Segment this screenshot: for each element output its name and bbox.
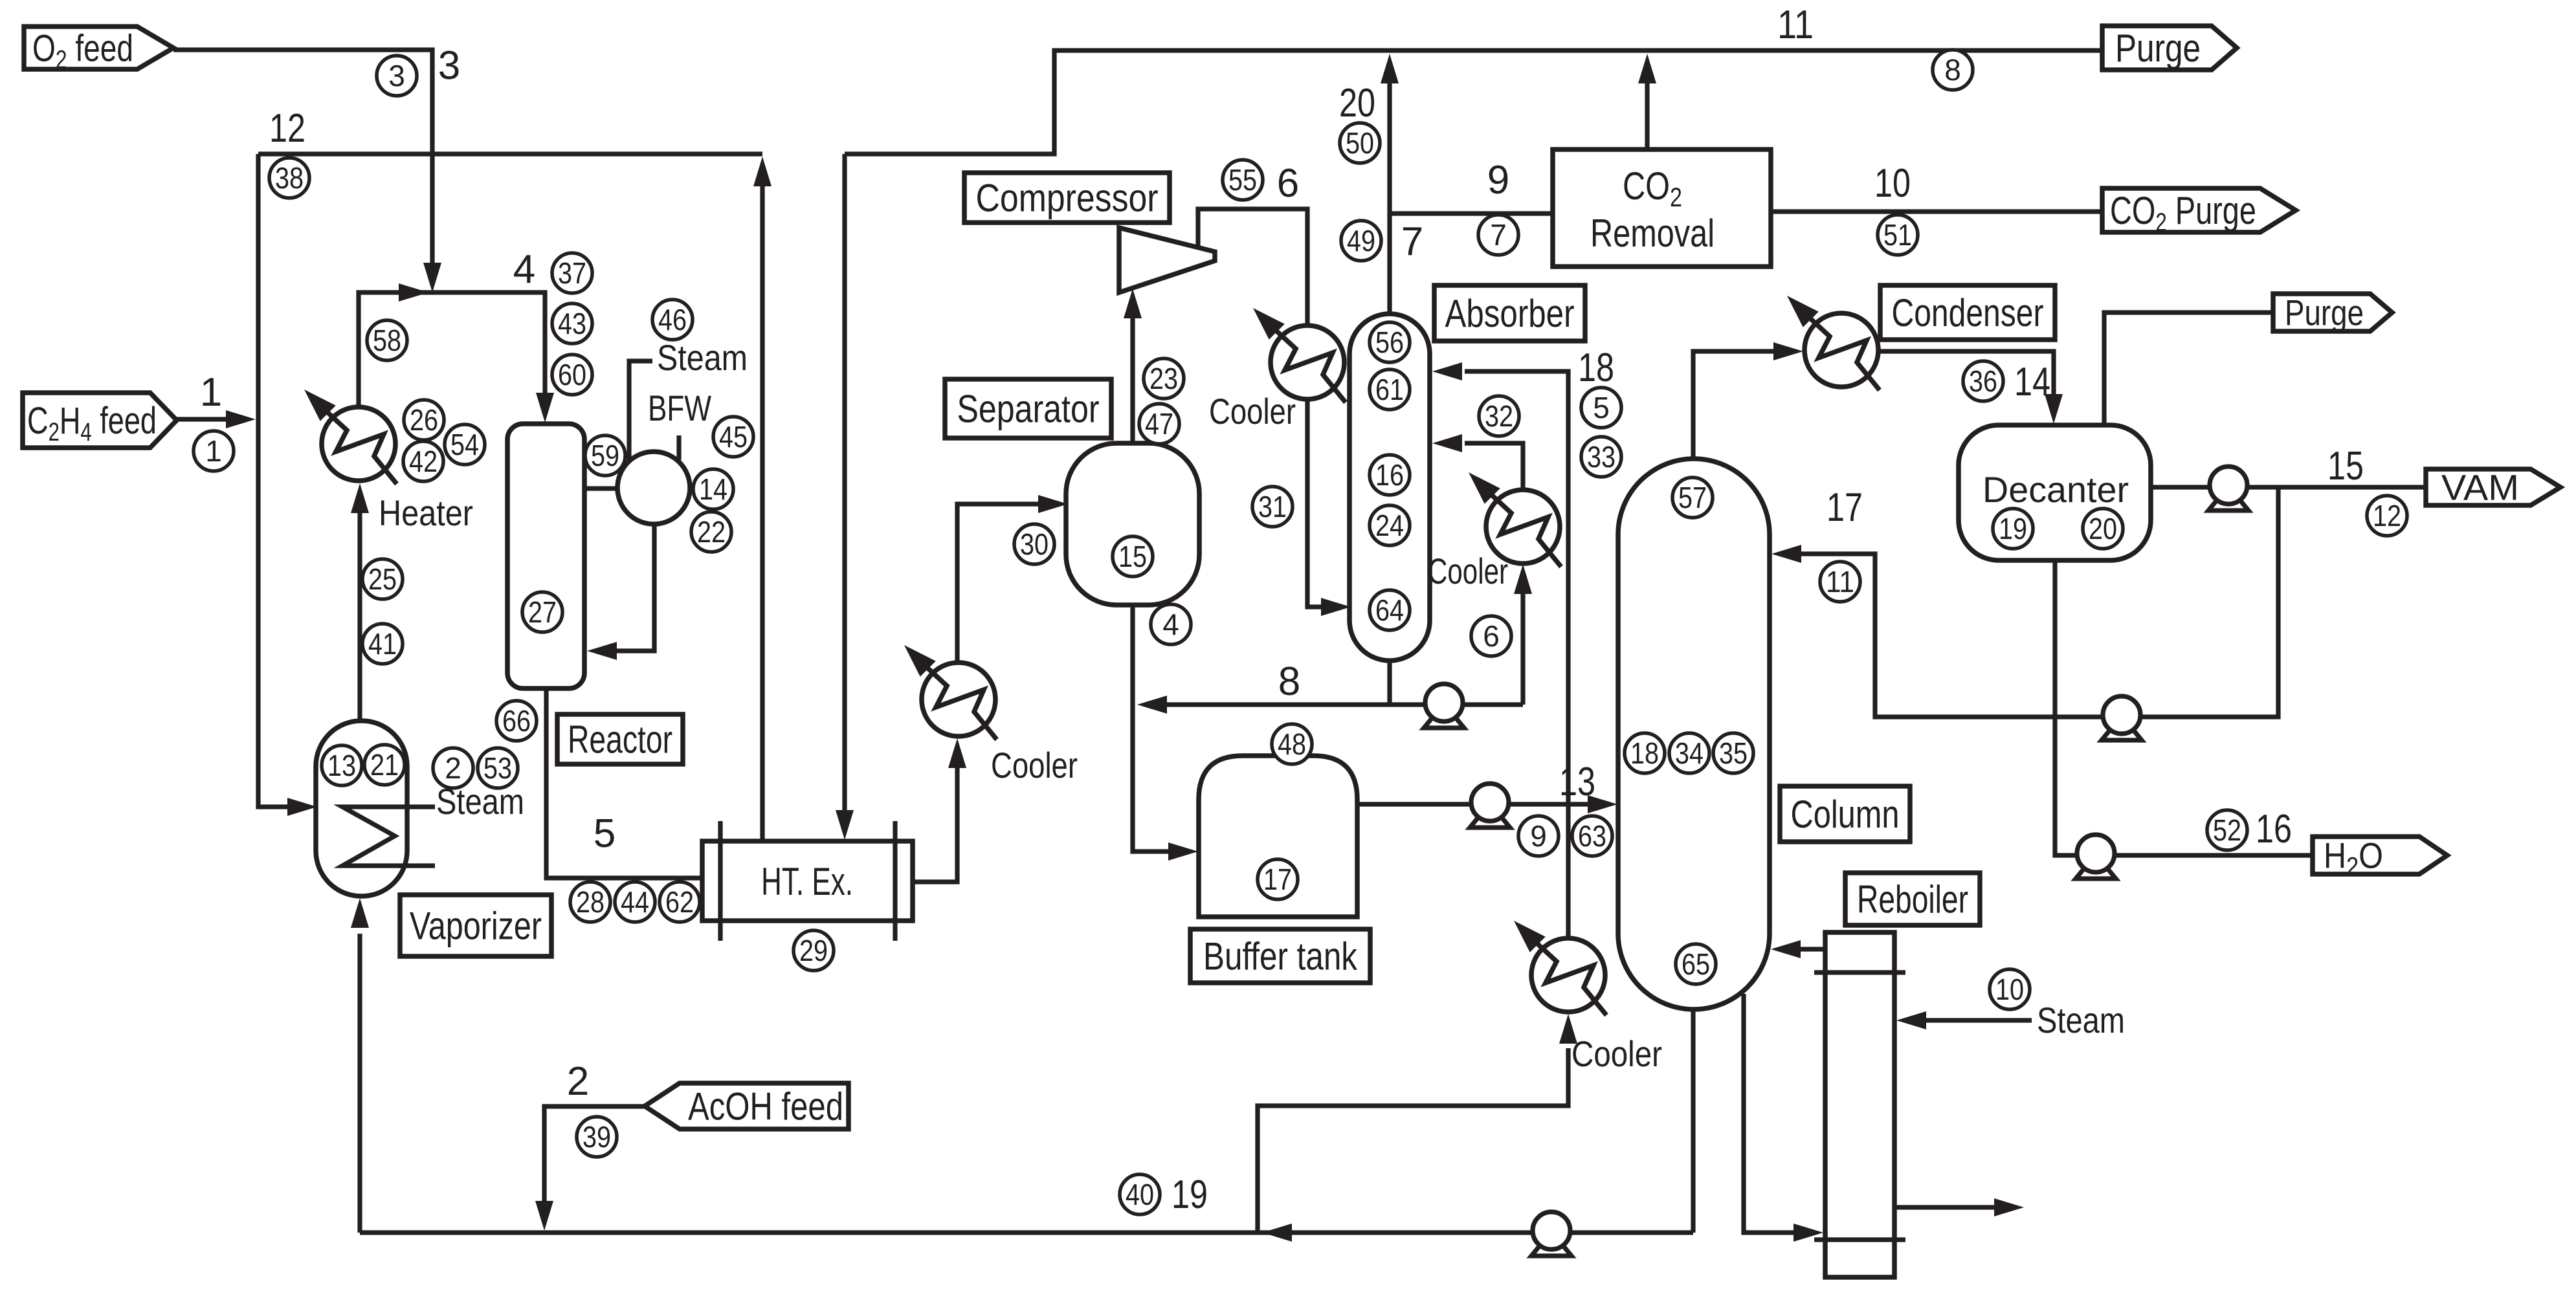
svg-text:64: 64 <box>1375 593 1404 627</box>
arrowhead into vaporizer bottom <box>351 898 369 928</box>
svg-text:18: 18 <box>1630 736 1659 770</box>
arrowhead stream 3 into mix junction <box>423 263 441 292</box>
svg-text:7: 7 <box>1490 218 1507 252</box>
stream tag 56 <box>1370 322 1410 362</box>
absorber column vessel <box>1349 314 1430 661</box>
stream tag 63 <box>1572 816 1612 856</box>
svg-text:34: 34 <box>1675 736 1704 770</box>
arrowhead into bottom cooler <box>1559 1014 1577 1044</box>
label Reboiler <box>1845 873 1980 925</box>
cooler E3 (compressor discharge) <box>1253 308 1346 402</box>
arrowhead stream 12 into vaporizer <box>287 798 317 816</box>
arrowhead into condenser <box>1773 342 1803 360</box>
arrowhead into compressor <box>1124 289 1142 318</box>
svg-text:46: 46 <box>658 303 687 336</box>
svg-text:5: 5 <box>594 811 616 856</box>
wire stream 19 (bottoms recycle header) <box>360 1230 1693 1235</box>
pump P2 (column feed) <box>1470 784 1510 828</box>
stream tag 10 <box>1990 969 2030 1009</box>
stream tag 2 <box>433 748 473 788</box>
wire top gas header (streams 11/20) <box>845 50 2102 154</box>
svg-text:Cooler: Cooler <box>1571 1033 1662 1074</box>
svg-text:23: 23 <box>1149 362 1178 395</box>
compressor K1 <box>1119 228 1215 292</box>
svg-text:Separator: Separator <box>957 388 1100 431</box>
svg-text:Absorber: Absorber <box>1445 292 1575 335</box>
stream tag 38 <box>269 158 309 198</box>
stream tag 29 <box>794 930 834 971</box>
wire vaporizer top to heater <box>357 495 362 721</box>
svg-text:6: 6 <box>1483 619 1500 653</box>
svg-text:9: 9 <box>1487 158 1509 203</box>
arrowhead stream 17 into column <box>1771 545 1801 563</box>
svg-text:53: 53 <box>483 751 512 785</box>
wire stream 14 (condenser to decanter) <box>1878 351 2054 412</box>
wire reactor to steam drum <box>584 486 617 490</box>
wire separator overhead to compressor <box>1130 300 1135 443</box>
arrowhead riser into recycle header <box>753 157 772 186</box>
stream tag 12 <box>2367 496 2407 536</box>
stream tag 4 <box>1151 604 1191 644</box>
wire stream 17 (reflux return) <box>1793 487 2278 717</box>
stream tag 8 <box>1933 50 1973 90</box>
flag AcOH feed <box>645 1083 849 1129</box>
label Separator <box>945 379 1111 438</box>
arrowhead on stream 4 <box>399 283 428 302</box>
flag O2 feed <box>24 27 173 74</box>
svg-text:12: 12 <box>2373 499 2401 533</box>
svg-text:Heater: Heater <box>379 492 473 533</box>
wire stream 12 (recycle to vaporizer) <box>258 154 304 807</box>
wire column overhead to condenser <box>1693 351 1792 459</box>
arrowhead into top header <box>1381 54 1399 83</box>
pump P3 (bottoms recycle) <box>1531 1212 1571 1256</box>
svg-text:9: 9 <box>1530 819 1547 853</box>
svg-text:63: 63 <box>1578 819 1606 853</box>
stream tag 48 <box>1272 724 1312 764</box>
svg-text:39: 39 <box>583 1120 611 1154</box>
stream tag 42 <box>403 441 443 481</box>
wire stream 13 (buffer tank to column) <box>1357 802 1606 806</box>
wire stream 10 (CO2 purge) <box>1771 209 2102 214</box>
svg-text:40: 40 <box>1126 1178 1154 1211</box>
wire stream 1 (C2H4 feed) <box>177 417 244 421</box>
wire reboiler vapour return <box>1793 947 1825 951</box>
wire stream 16 (decanter aqueous to H2O) <box>2055 560 2313 855</box>
label Absorber <box>1434 285 1585 341</box>
wire stream 4 (heater outlet to reactor) <box>359 292 545 412</box>
wire HT.Ex hot outlet to cooler <box>913 751 957 882</box>
svg-text:2: 2 <box>567 1059 589 1104</box>
svg-text:CO2 Purge: CO2 Purge <box>2110 189 2256 237</box>
stream tag 13 <box>322 745 362 785</box>
svg-text:49: 49 <box>1347 224 1375 258</box>
arrowhead stream 14 into decanter <box>2045 394 2063 424</box>
svg-text:14: 14 <box>699 472 727 506</box>
arrowhead into buffer tank <box>1168 842 1198 861</box>
arrowhead steam into reboiler <box>1896 1011 1926 1029</box>
svg-text:45: 45 <box>719 420 748 454</box>
stream tag 60 <box>552 355 592 395</box>
svg-text:21: 21 <box>370 748 399 782</box>
stream tag 30 <box>1014 524 1054 564</box>
wire stream 5 (reactor bottom to HT.Ex) <box>546 688 702 878</box>
flag H2O product <box>2313 835 2447 881</box>
svg-text:11: 11 <box>1826 565 1854 599</box>
svg-text:19: 19 <box>1171 1172 1208 1217</box>
reactor R1 vessel <box>507 424 584 688</box>
flag CO2 Purge <box>2102 188 2296 237</box>
cooler E5 (bottoms recycle) <box>1514 921 1606 1015</box>
svg-text:48: 48 <box>1278 727 1306 761</box>
wire column bottoms to reboiler <box>1744 994 1802 1233</box>
svg-text:20: 20 <box>2089 512 2117 545</box>
arrowhead stream 18 into absorber <box>1432 362 1462 380</box>
stream tag 19 <box>1993 509 2033 549</box>
stream tag 44 <box>615 882 655 922</box>
svg-text:31: 31 <box>1258 490 1287 523</box>
svg-text:8: 8 <box>1944 53 1961 87</box>
svg-text:14: 14 <box>2014 360 2050 404</box>
svg-text:4: 4 <box>1162 608 1179 641</box>
svg-text:16: 16 <box>1375 458 1404 492</box>
svg-text:BFW: BFW <box>648 388 711 428</box>
stream tag 9 <box>1518 816 1559 856</box>
stream tag 62 <box>660 882 700 922</box>
svg-text:Vaporizer: Vaporizer <box>410 905 542 948</box>
pump P5 (reflux) <box>2102 696 2142 740</box>
wire stream 15 (decanter to VAM) <box>2151 485 2426 489</box>
reboiler tube sheets <box>1814 970 1905 974</box>
stream tag 34 <box>1669 733 1709 773</box>
arrowhead stream 1 into recycle line <box>226 410 256 428</box>
stream tag 15 <box>1113 536 1153 577</box>
svg-text:5: 5 <box>1593 391 1610 424</box>
svg-text:52: 52 <box>2213 813 2241 847</box>
arrowhead stream 32 into absorber <box>1432 434 1462 452</box>
svg-text:15: 15 <box>1118 540 1147 573</box>
svg-text:22: 22 <box>697 515 726 549</box>
svg-text:56: 56 <box>1375 325 1404 359</box>
svg-text:3: 3 <box>438 43 460 88</box>
stream tag 66 <box>496 701 537 741</box>
heater E1 <box>304 390 397 484</box>
stream tag 25 <box>362 559 403 599</box>
arrowhead AcOH into recycle header <box>535 1201 553 1231</box>
svg-text:65: 65 <box>1682 947 1710 981</box>
label CO2 Removal <box>1553 149 1771 267</box>
svg-text:VAM: VAM <box>2441 467 2519 508</box>
arrowhead stream 13 into column <box>1588 795 1617 813</box>
svg-text:60: 60 <box>558 358 586 391</box>
wire riser HT.Ex to recycle header <box>760 166 764 841</box>
svg-text:30: 30 <box>1020 527 1049 561</box>
svg-text:4: 4 <box>513 247 535 292</box>
wire decanter vapour purge <box>2104 313 2273 425</box>
arrowhead reboiler return into column <box>1771 940 1801 958</box>
svg-text:Cooler: Cooler <box>1209 391 1296 432</box>
stream tag 50 <box>1340 123 1380 163</box>
svg-text:Purge: Purge <box>2115 27 2201 70</box>
svg-text:3: 3 <box>388 59 405 93</box>
svg-text:11: 11 <box>1777 3 1814 47</box>
svg-text:Condenser: Condenser <box>1892 291 2044 335</box>
buffer tank vessel <box>1199 756 1357 917</box>
stream tag 59 <box>585 435 625 476</box>
svg-text:1: 1 <box>205 434 222 468</box>
HT.Ex shell <box>702 841 913 921</box>
wire stream 18 (cooled recycle into absorber) <box>1465 371 1568 939</box>
svg-text:Steam: Steam <box>2037 1000 2125 1040</box>
wire steam to reboiler <box>1918 1018 2032 1022</box>
stream tag 7 <box>1478 215 1518 255</box>
wire stream 6 (compressor discharge) <box>1198 209 1307 594</box>
label Reactor <box>557 714 683 764</box>
svg-text:36: 36 <box>1969 364 1997 398</box>
stream tag 20 <box>2083 509 2123 549</box>
svg-text:44: 44 <box>621 885 649 919</box>
wire stream 32 (pumparound return) <box>1465 443 1523 490</box>
arrowhead on bottoms recycle header <box>1262 1224 1292 1242</box>
wire CO2 removal overhead <box>1645 63 1649 149</box>
svg-text:Column: Column <box>1791 793 1900 836</box>
svg-text:Compressor: Compressor <box>976 177 1159 220</box>
flag VAM product <box>2426 467 2560 508</box>
stream tag 54 <box>445 424 485 465</box>
label Vaporizer <box>400 895 551 956</box>
wire stream 12 horizontal header <box>258 151 762 156</box>
stream tag 5 <box>1581 388 1621 428</box>
svg-text:59: 59 <box>591 439 619 472</box>
flag Purge (decanter) <box>2273 292 2392 333</box>
svg-text:19: 19 <box>1999 512 2027 545</box>
stream tag 11 <box>1820 562 1860 602</box>
svg-text:6: 6 <box>1277 161 1299 206</box>
svg-text:Reboiler: Reboiler <box>1857 878 1968 921</box>
stream tag 39 <box>577 1117 617 1157</box>
wire pumparound to cooler <box>1520 576 1525 705</box>
svg-text:20: 20 <box>1339 81 1375 126</box>
stream tag 57 <box>1672 478 1713 518</box>
svg-text:35: 35 <box>1719 736 1748 770</box>
stream tag 18 <box>1625 733 1665 773</box>
wire drop into HT.Ex <box>842 154 847 829</box>
vaporizer steam coil <box>342 807 435 866</box>
stream tag 47 <box>1139 404 1179 444</box>
svg-text:37: 37 <box>558 256 586 290</box>
flag Purge (top) <box>2102 26 2237 70</box>
arrowhead drum return into reactor <box>587 642 617 660</box>
wire BFW into drum <box>676 435 681 460</box>
wire separator bottoms to buffer tank <box>1133 605 1187 851</box>
condenser E6 <box>1787 296 1880 390</box>
stream tag 43 <box>552 303 592 344</box>
wire stream 3 (O2 feed to mix point) <box>173 50 432 280</box>
svg-text:50: 50 <box>1346 126 1374 160</box>
stream tag 49 <box>1341 221 1381 261</box>
svg-text:54: 54 <box>450 428 479 461</box>
stream tag 45 <box>713 417 753 457</box>
wire absorber bottoms <box>1387 661 1392 705</box>
reboiler shell <box>1825 932 1894 1277</box>
svg-text:18: 18 <box>1578 346 1614 390</box>
svg-text:43: 43 <box>558 307 586 340</box>
wire absorber bottoms to pumparound pump <box>1390 702 1523 707</box>
vaporizer V1 vessel <box>316 721 407 896</box>
svg-text:41: 41 <box>368 627 397 661</box>
stream tag 64 <box>1370 590 1410 630</box>
pump P1 (absorber bottoms) <box>1424 684 1464 728</box>
svg-text:2: 2 <box>445 751 461 785</box>
svg-text:16: 16 <box>2256 807 2292 851</box>
svg-text:27: 27 <box>528 595 557 629</box>
arrowhead stream 4 into reactor <box>536 393 554 423</box>
arrowhead reboiler bottoms <box>1994 1198 2024 1216</box>
wire stream 20 (absorber overhead) <box>1387 63 1392 314</box>
wire reboiler bottoms out <box>1894 1205 2012 1209</box>
stream tag 27 <box>522 592 562 632</box>
wire stream 9 (to CO2 removal) <box>1390 211 1553 215</box>
svg-text:1: 1 <box>200 370 222 415</box>
svg-text:51: 51 <box>1883 218 1912 252</box>
stream tag 55 <box>1223 160 1263 200</box>
arrowhead into heater bottom <box>351 483 369 513</box>
svg-text:Steam: Steam <box>657 337 748 378</box>
svg-text:Decanter: Decanter <box>1982 469 2129 510</box>
stream tag 16 <box>1370 455 1410 495</box>
HT.Ex tube sheets <box>718 821 722 941</box>
wire stream 8 (absorber bottoms to separator leg) <box>1152 702 1390 707</box>
stream tag 31 <box>1252 487 1293 527</box>
svg-text:C2H4 feed: C2H4 feed <box>27 400 157 446</box>
svg-text:Reactor: Reactor <box>568 718 672 762</box>
cooler E4 (absorber pumparound) <box>1469 472 1561 567</box>
svg-text:24: 24 <box>1375 509 1404 542</box>
svg-text:7: 7 <box>1401 219 1423 264</box>
arrowhead stream 8 into separator leg <box>1137 696 1167 714</box>
svg-text:Cooler: Cooler <box>1428 551 1508 591</box>
label Condenser <box>1880 285 2055 340</box>
stream tag 36 <box>1963 361 2003 401</box>
stream tag 32 <box>1479 396 1519 436</box>
svg-text:42: 42 <box>409 445 438 478</box>
stream tag 65 <box>1676 944 1716 984</box>
wire cooler to separator <box>957 504 1054 662</box>
stream tag 53 <box>478 748 518 788</box>
stream tag 17 <box>1258 859 1298 899</box>
svg-text:10: 10 <box>1874 161 1911 206</box>
svg-text:62: 62 <box>665 885 694 919</box>
svg-text:10: 10 <box>1995 972 2024 1006</box>
arrowhead into separator <box>1038 495 1068 513</box>
separator S1 vessel <box>1066 443 1199 605</box>
svg-text:Buffer tank: Buffer tank <box>1203 935 1358 978</box>
svg-text:47: 47 <box>1145 407 1173 441</box>
stream tag 41 <box>362 624 403 664</box>
stream tag 6 <box>1471 616 1511 656</box>
svg-text:15: 15 <box>2327 444 2364 489</box>
decanter vessel <box>1959 425 2151 560</box>
label Column <box>1780 786 1910 842</box>
stream tag 1 <box>194 431 234 471</box>
stream tag 35 <box>1713 733 1753 773</box>
svg-text:Removal: Removal <box>1590 212 1715 255</box>
stream tag 23 <box>1144 358 1184 399</box>
label Compressor <box>964 173 1170 223</box>
wire stream 2 (AcOH feed) <box>544 1106 645 1220</box>
svg-text:58: 58 <box>373 324 401 357</box>
svg-text:8: 8 <box>1278 659 1300 704</box>
steam drum <box>617 452 690 524</box>
stream tag 40 <box>1120 1174 1160 1214</box>
wire column bottoms down <box>1691 1009 1695 1233</box>
arrowhead stream 6 into absorber <box>1321 598 1351 616</box>
label Buffer tank <box>1190 929 1370 983</box>
stream tag 28 <box>570 882 610 922</box>
stream tag 58 <box>367 320 407 360</box>
svg-text:Cooler: Cooler <box>991 745 1078 785</box>
svg-text:HT. Ex.: HT. Ex. <box>761 860 853 903</box>
svg-text:17: 17 <box>1827 485 1863 530</box>
arrowhead CO2 removal into header <box>1638 54 1656 83</box>
stream tag 61 <box>1370 369 1410 410</box>
svg-text:13: 13 <box>1559 760 1595 804</box>
svg-text:66: 66 <box>502 704 531 738</box>
stream tag 24 <box>1370 505 1410 545</box>
arrowhead into pumparound cooler <box>1514 564 1532 594</box>
wire recycle up to vaporizer <box>357 934 362 1233</box>
svg-text:17: 17 <box>1263 862 1292 896</box>
wire recycle branch to bottom cooler <box>1258 1048 1568 1233</box>
distillation column vessel <box>1618 459 1770 1009</box>
svg-text:38: 38 <box>275 161 304 195</box>
stream tag 33 <box>1581 437 1621 477</box>
stream tag 51 <box>1878 215 1918 255</box>
svg-text:28: 28 <box>576 885 605 919</box>
svg-text:55: 55 <box>1228 163 1257 197</box>
svg-text:Purge: Purge <box>2285 292 2364 333</box>
svg-text:33: 33 <box>1587 440 1616 474</box>
pump P4 (VAM product) <box>2208 467 2248 511</box>
svg-text:O2 feed: O2 feed <box>32 27 133 74</box>
svg-text:29: 29 <box>799 934 828 967</box>
arrowhead into HT.Ex top <box>836 810 854 840</box>
svg-text:25: 25 <box>368 562 397 596</box>
svg-text:13: 13 <box>328 749 356 782</box>
wire steam drum to reactor return <box>599 524 654 651</box>
stream tag 52 <box>2207 810 2247 850</box>
stream tag 22 <box>691 512 731 552</box>
stream tag 3 <box>377 56 417 96</box>
svg-text:61: 61 <box>1375 373 1404 406</box>
svg-text:26: 26 <box>410 403 438 437</box>
svg-text:AcOH feed: AcOH feed <box>688 1085 843 1128</box>
wire stream 6 into absorber <box>1307 594 1337 607</box>
stream tag 26 <box>404 400 444 440</box>
wire steam out of drum <box>629 361 652 461</box>
cooler E2 (reactor effluent) <box>904 645 997 740</box>
arrowhead into cooler <box>948 738 966 768</box>
svg-text:57: 57 <box>1678 481 1707 514</box>
svg-text:12: 12 <box>269 106 305 151</box>
stream tag 37 <box>552 253 592 293</box>
stream tag 46 <box>652 300 693 340</box>
pump P6 (aqueous) <box>2076 835 2116 879</box>
arrowhead into reboiler bottom <box>1793 1224 1823 1242</box>
stream tag 14 <box>693 469 733 509</box>
flag C2H4 feed <box>23 393 177 448</box>
svg-text:32: 32 <box>1485 399 1513 433</box>
